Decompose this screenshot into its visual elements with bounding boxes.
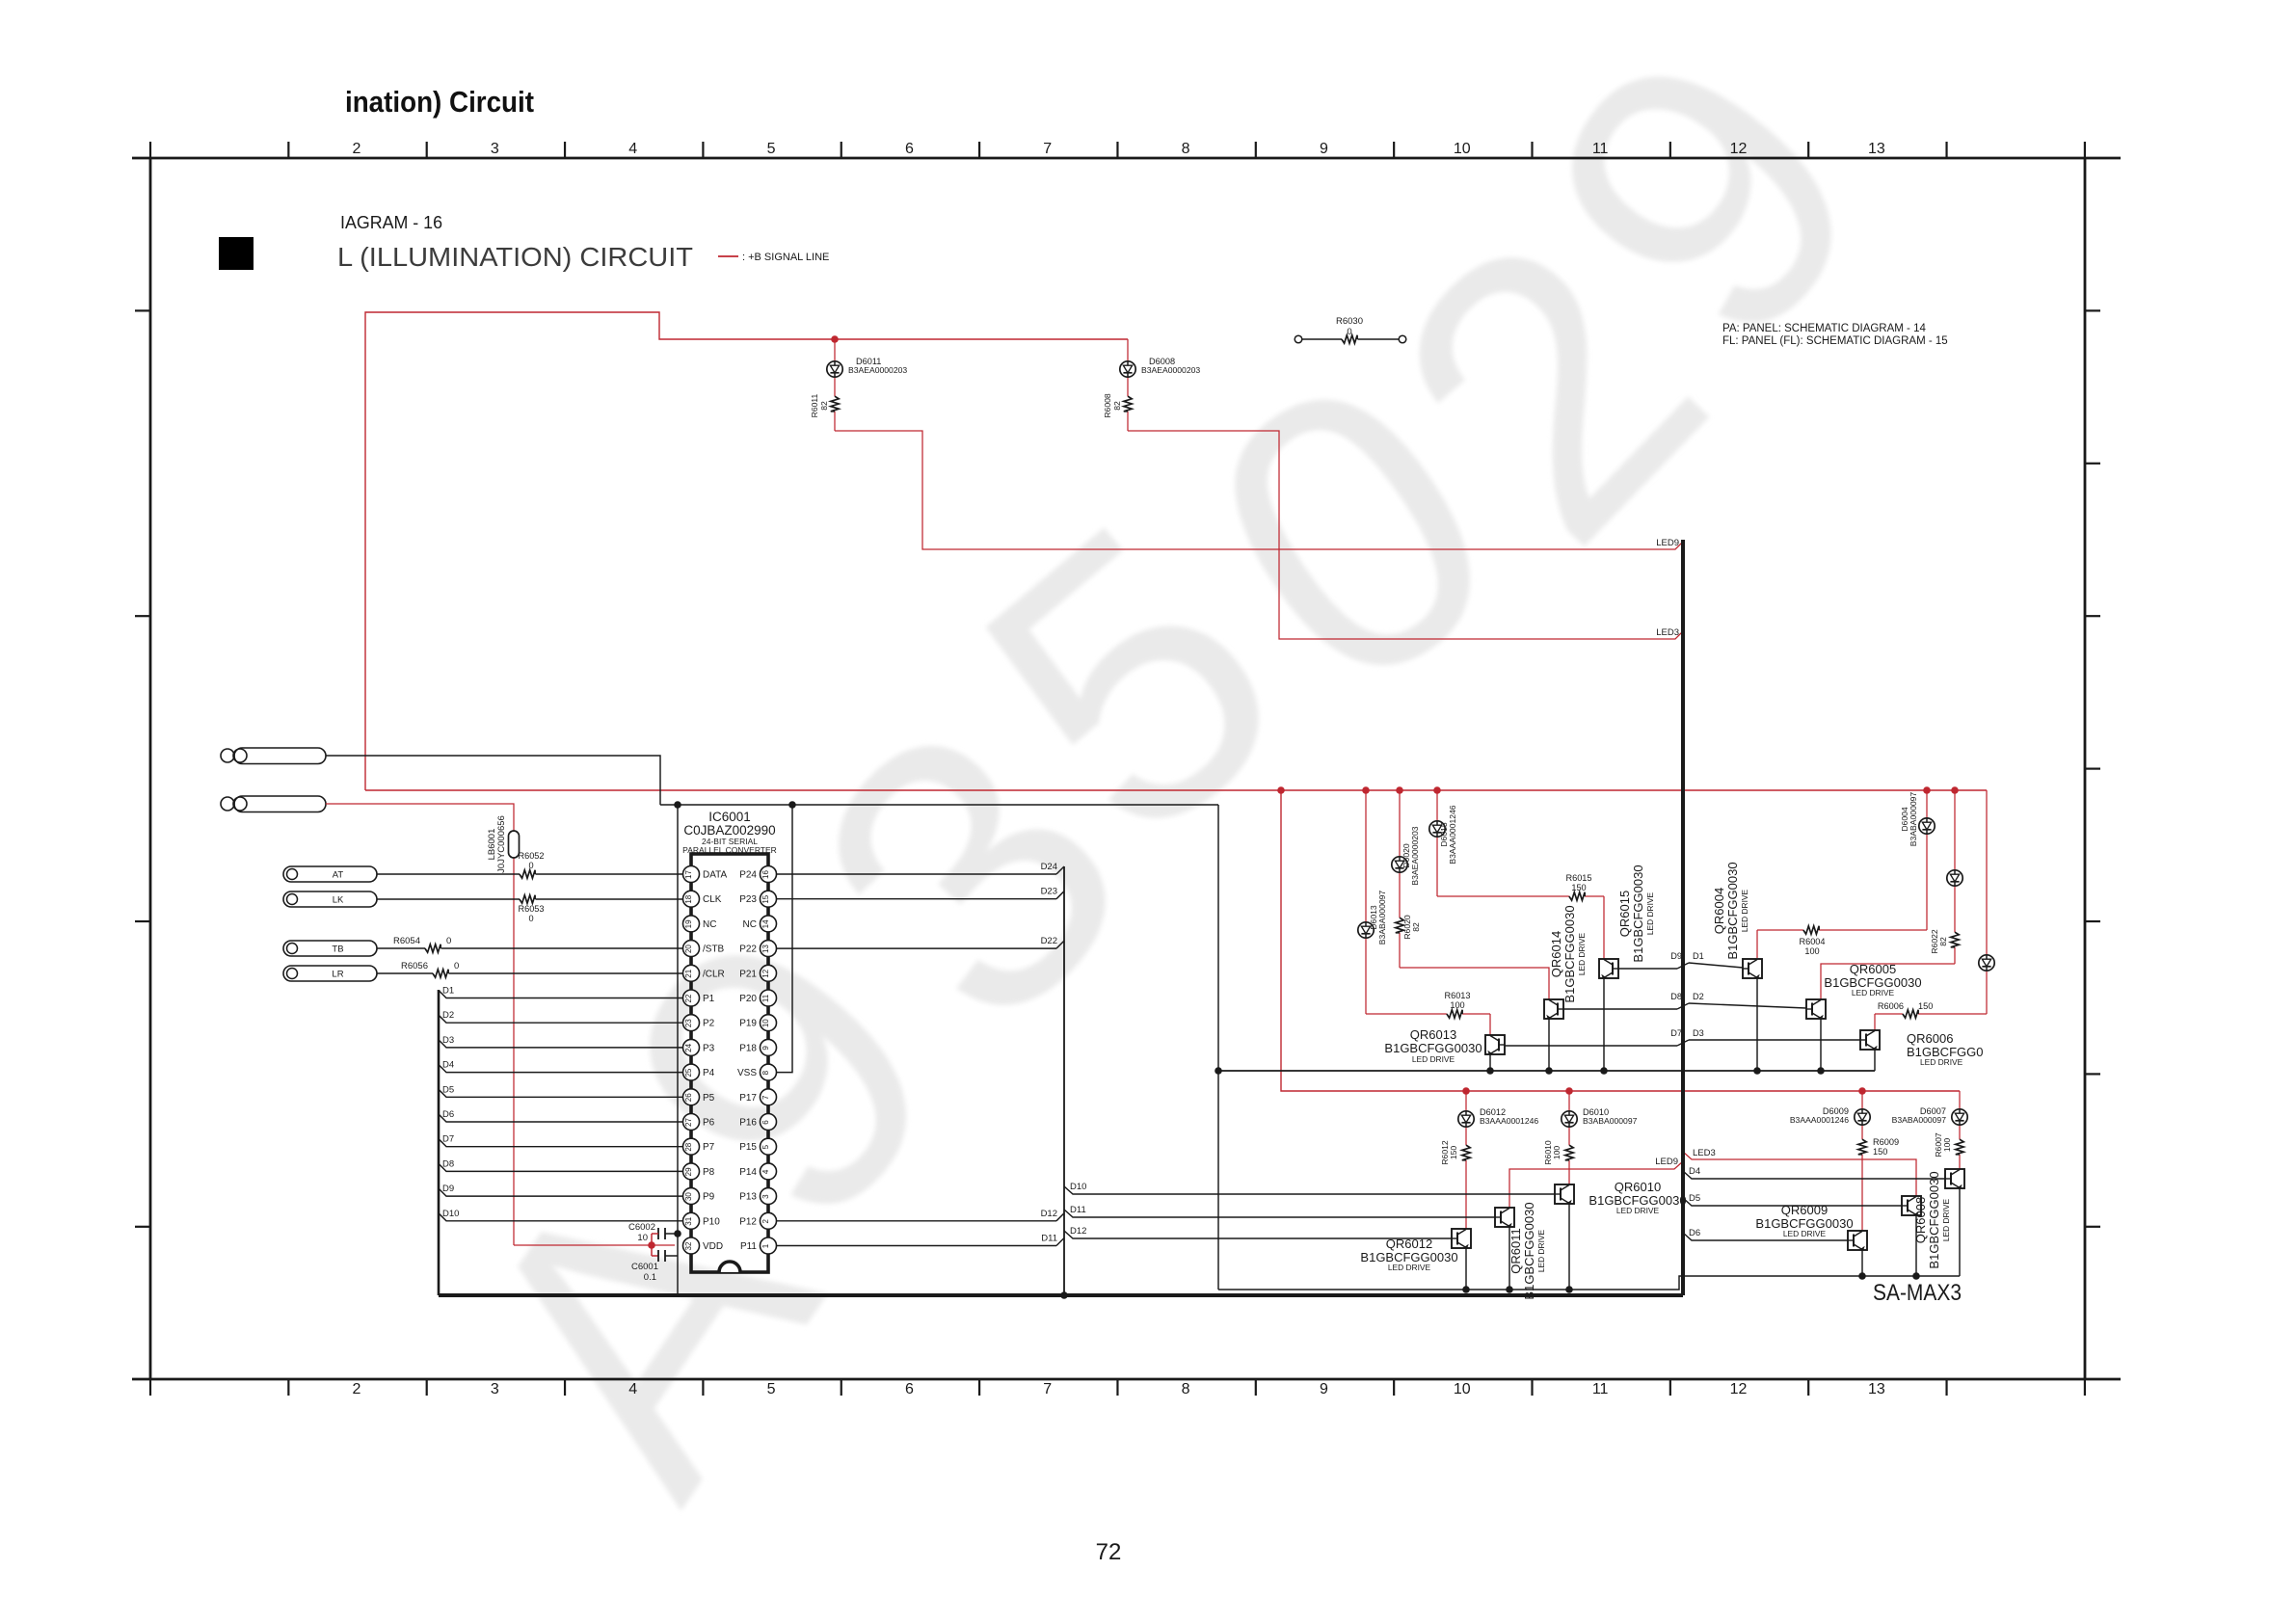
subtitle IAGRAM-16 <box>340 212 442 232</box>
svg-text:D8: D8 <box>1670 992 1682 1001</box>
svg-text:26: 26 <box>684 1093 693 1102</box>
svg-text:C6001: C6001 <box>631 1262 658 1272</box>
resistor R6009 <box>1858 1139 1866 1155</box>
node <box>1060 1291 1068 1299</box>
svg-text:B3AAA0001246: B3AAA0001246 <box>1790 1115 1849 1125</box>
svg-text:D6: D6 <box>442 1109 454 1120</box>
svg-text:LED DRIVE: LED DRIVE <box>1852 988 1895 998</box>
wire QR6012 collector <box>1462 1248 1470 1293</box>
IC IC6001 body <box>691 854 768 1272</box>
svg-text:R6052: R6052 <box>518 851 544 861</box>
svg-text:13: 13 <box>761 945 770 953</box>
transistor QR6011 <box>1495 1208 1514 1228</box>
svg-text:P4: P4 <box>703 1068 715 1078</box>
svg-text:D8: D8 <box>442 1158 454 1169</box>
LED D6012 <box>1458 1111 1474 1127</box>
svg-text:10: 10 <box>761 1019 770 1027</box>
svg-text:QR6013: QR6013 <box>1410 1027 1456 1042</box>
svg-text:21: 21 <box>684 969 693 977</box>
note <box>1722 323 1948 347</box>
svg-text:8: 8 <box>1182 141 1190 157</box>
diagram title <box>337 242 693 272</box>
wire QR6014 collector <box>1545 1019 1553 1075</box>
svg-text:P14: P14 <box>739 1167 757 1178</box>
wire D6015 branch <box>1437 790 1604 959</box>
wire D6009 branch <box>1861 1091 1863 1231</box>
label <box>1670 992 1704 1001</box>
resistor R6013 <box>1444 991 1470 1018</box>
wire D6012 branch <box>1465 1091 1467 1229</box>
label <box>1384 1027 1482 1064</box>
label LED3 <box>1693 1148 1716 1158</box>
transistor Q-unlabeled <box>1945 1169 1964 1189</box>
svg-text:12: 12 <box>1730 1381 1748 1397</box>
wires D1-D10 <box>439 986 682 1221</box>
svg-text:P2: P2 <box>703 1019 715 1029</box>
black square marker <box>219 237 254 270</box>
label <box>848 357 907 375</box>
label LED9 <box>1655 1157 1678 1167</box>
node rail R6022 <box>1951 786 1959 794</box>
svg-text:9: 9 <box>1320 1381 1328 1397</box>
svg-text:12: 12 <box>761 969 770 977</box>
svg-text:D10: D10 <box>442 1209 459 1219</box>
bus collector bottom <box>1218 1276 1960 1290</box>
resistor R6006 <box>1878 1001 1933 1018</box>
label <box>1402 826 1420 885</box>
svg-text:QR6006: QR6006 <box>1907 1031 1953 1046</box>
svg-text:18: 18 <box>684 894 693 903</box>
svg-text:150: 150 <box>1571 883 1586 892</box>
wire +B rail <box>365 789 1987 791</box>
wire D12 out <box>777 1209 1065 1221</box>
svg-text:B3AAA0001246: B3AAA0001246 <box>1480 1116 1538 1126</box>
label <box>1480 1107 1538 1126</box>
label <box>1824 962 1921 998</box>
svg-text:NC: NC <box>743 919 757 930</box>
svg-text:/STB: /STB <box>703 945 725 955</box>
svg-text:150: 150 <box>1449 1146 1458 1160</box>
bus D left vertical <box>438 990 441 1295</box>
label <box>1617 865 1655 962</box>
LED D6008 <box>1120 361 1135 377</box>
LED D6020 <box>1392 857 1407 872</box>
resistor R6052 <box>520 870 535 878</box>
label <box>682 810 777 855</box>
LED D6015 <box>1429 821 1445 837</box>
svg-text:LED9: LED9 <box>1656 538 1679 548</box>
svg-text:B3ABA000097: B3ABA000097 <box>1583 1116 1638 1126</box>
svg-text:P9: P9 <box>703 1192 715 1203</box>
wire R6006 branch <box>1875 790 1987 1030</box>
transistor QR6004 <box>1743 959 1762 979</box>
LED D6004 <box>1919 818 1935 834</box>
connector LK <box>283 891 377 907</box>
ferrite bead LB6001 <box>509 831 520 858</box>
svg-text:QR6004: QR6004 <box>1712 888 1726 934</box>
node rail D6015 <box>1433 786 1441 794</box>
svg-text:B3ABA000097: B3ABA000097 <box>1892 1115 1947 1125</box>
svg-text:0: 0 <box>446 936 451 946</box>
node <box>674 1230 681 1237</box>
svg-text:P21: P21 <box>739 969 757 979</box>
label <box>518 851 544 870</box>
svg-text:P10: P10 <box>703 1216 720 1227</box>
svg-text:2: 2 <box>353 141 361 157</box>
svg-text:2: 2 <box>761 1219 770 1224</box>
wire D11 out <box>777 1234 1065 1246</box>
svg-text:22: 22 <box>684 994 693 1002</box>
svg-text:ination) Circuit: ination) Circuit <box>345 85 534 119</box>
label <box>1141 357 1200 375</box>
capacitor C6002 <box>652 1228 678 1256</box>
svg-text:B1GBCFGG0030: B1GBCFGG0030 <box>1725 862 1740 959</box>
svg-text:R6009: R6009 <box>1873 1137 1899 1147</box>
svg-text:72: 72 <box>1096 1539 1122 1565</box>
node rail2 D6010 <box>1565 1087 1573 1095</box>
wire D6013 branch <box>1366 790 1490 1035</box>
svg-text:P5: P5 <box>703 1093 715 1104</box>
svg-text:R6004: R6004 <box>1799 937 1825 946</box>
label LED3 top <box>1656 627 1679 638</box>
resistor R6010 <box>1565 1145 1573 1160</box>
svg-text:IC6001: IC6001 <box>708 810 751 824</box>
svg-text:17: 17 <box>684 870 693 879</box>
svg-text:P18: P18 <box>739 1043 757 1053</box>
svg-text:6: 6 <box>761 1120 770 1125</box>
svg-text:D11: D11 <box>1070 1205 1086 1215</box>
svg-text:D22: D22 <box>1041 936 1057 946</box>
svg-text:20: 20 <box>684 945 693 953</box>
svg-text:LED DRIVE: LED DRIVE <box>1920 1057 1963 1067</box>
wire QR6004 collector <box>1753 978 1761 1075</box>
wire LR-CLR <box>377 972 682 974</box>
svg-text:P7: P7 <box>703 1142 715 1153</box>
svg-text:B3AEA0000203: B3AEA0000203 <box>848 365 907 375</box>
svg-text:LED9: LED9 <box>1655 1157 1678 1167</box>
transistor QR6012 <box>1452 1229 1471 1249</box>
svg-text:28: 28 <box>684 1142 693 1151</box>
svg-text:B3ABA000097: B3ABA000097 <box>1909 792 1918 847</box>
svg-text:VDD: VDD <box>703 1241 723 1252</box>
svg-text:B3AEA0000203: B3AEA0000203 <box>1141 365 1200 375</box>
svg-text:8: 8 <box>761 1070 770 1075</box>
svg-text:19: 19 <box>684 919 693 928</box>
wire R6022 branch <box>1821 790 1955 999</box>
label <box>1790 1106 1849 1125</box>
svg-text:D3: D3 <box>1693 1028 1704 1038</box>
svg-text:9: 9 <box>761 1046 770 1051</box>
resistor R6015 <box>1565 873 1591 900</box>
transistor QR6005 <box>1806 999 1826 1020</box>
svg-text:11: 11 <box>1592 1381 1609 1397</box>
page title <box>345 85 534 119</box>
wire QR6005 collector <box>1817 1019 1825 1075</box>
label <box>1670 1028 1704 1038</box>
wire D22 <box>777 936 1065 948</box>
svg-text:LED3: LED3 <box>1693 1148 1716 1158</box>
svg-text:LED3: LED3 <box>1656 627 1679 638</box>
resistor R6020 <box>1396 918 1403 933</box>
svg-text:P15: P15 <box>739 1142 757 1153</box>
svg-text:R6008: R6008 <box>1103 393 1112 418</box>
wire D6007 branch <box>1959 1091 1961 1169</box>
svg-text:D10: D10 <box>1070 1182 1086 1192</box>
svg-text:3: 3 <box>491 1381 499 1397</box>
node VDD red <box>648 1241 655 1249</box>
label <box>1549 905 1587 1002</box>
label <box>628 1222 655 1243</box>
svg-text:24: 24 <box>684 1043 693 1051</box>
label <box>1892 1106 1947 1125</box>
wire VSS loop <box>777 805 793 1073</box>
connector TB <box>283 941 377 956</box>
svg-text:23: 23 <box>684 1019 693 1027</box>
svg-text:0: 0 <box>528 861 533 870</box>
svg-text:LED DRIVE: LED DRIVE <box>1388 1263 1431 1272</box>
svg-text:D4: D4 <box>442 1060 454 1071</box>
wire VSS left drop <box>677 805 679 1295</box>
transistor QR6006 <box>1860 1030 1880 1051</box>
svg-text:29: 29 <box>684 1167 693 1176</box>
svg-text:100: 100 <box>1450 1000 1464 1010</box>
svg-text:: +B SIGNAL LINE: : +B SIGNAL LINE <box>742 252 829 263</box>
svg-text:30: 30 <box>684 1192 693 1201</box>
wire stub1 <box>326 756 660 805</box>
svg-text:D1: D1 <box>442 986 454 997</box>
svg-text:2: 2 <box>353 1381 361 1397</box>
node +B junction D6011 <box>831 335 839 343</box>
svg-text:9: 9 <box>1320 141 1328 157</box>
svg-text:P12: P12 <box>739 1216 757 1227</box>
label <box>1900 792 1918 847</box>
wire TB-STB <box>377 947 682 949</box>
wire IC top <box>660 804 1218 806</box>
svg-text:P3: P3 <box>703 1043 715 1053</box>
svg-text:15: 15 <box>761 894 770 903</box>
svg-text:7: 7 <box>1043 141 1052 157</box>
wire VDD feed <box>326 804 675 1245</box>
svg-text:LED DRIVE: LED DRIVE <box>1616 1206 1660 1215</box>
LED D6013 <box>1358 922 1374 938</box>
svg-text:D12: D12 <box>1041 1209 1057 1219</box>
wire QR6008 collector <box>1912 1215 1920 1280</box>
svg-text:13: 13 <box>1868 141 1885 157</box>
legend +B signal line <box>718 252 829 263</box>
node rail D6020 <box>1396 786 1403 794</box>
svg-text:P8: P8 <box>703 1167 715 1178</box>
svg-text:DATA: DATA <box>703 870 728 881</box>
wire LK-CLK <box>377 898 682 900</box>
svg-text:D3: D3 <box>442 1035 454 1046</box>
svg-text:100: 100 <box>1804 946 1819 956</box>
svg-text:C6002: C6002 <box>628 1222 655 1233</box>
resistor R6012 <box>1462 1145 1470 1160</box>
wire +B top loop <box>365 312 1128 790</box>
svg-text:AT: AT <box>333 870 344 881</box>
label <box>1103 393 1122 418</box>
node rail2 D6009 <box>1858 1087 1866 1095</box>
transistor QR6015 <box>1599 959 1618 979</box>
ruler ticks and numbers <box>135 141 2100 1397</box>
svg-text:L (ILLUMINATION) CIRCUIT: L (ILLUMINATION) CIRCUIT <box>337 242 693 272</box>
label <box>1440 1140 1458 1165</box>
svg-text:P11: P11 <box>740 1241 757 1252</box>
node <box>1215 1067 1222 1075</box>
svg-text:LED DRIVE: LED DRIVE <box>1536 1229 1546 1272</box>
svg-text:R6006: R6006 <box>1878 1001 1904 1011</box>
wire QR6015 collector <box>1600 978 1608 1075</box>
resistor R6008 <box>1124 396 1132 412</box>
connector AT <box>283 866 377 882</box>
svg-text:QR6009: QR6009 <box>1781 1203 1828 1217</box>
svg-text:J0JYC000656: J0JYC000656 <box>496 815 507 873</box>
page number 72 <box>1096 1539 1122 1565</box>
resistor R6011 <box>831 396 839 412</box>
frame border <box>132 158 2121 1379</box>
transistor QR6014 <box>1544 999 1563 1020</box>
svg-text:D5: D5 <box>1689 1193 1700 1204</box>
svg-text:27: 27 <box>684 1118 693 1127</box>
svg-text:P6: P6 <box>703 1118 715 1129</box>
node <box>674 801 681 809</box>
svg-text:D4: D4 <box>1689 1166 1700 1177</box>
svg-text:0: 0 <box>528 914 533 923</box>
resistor R6022 <box>1951 932 1959 947</box>
svg-text:D24: D24 <box>1041 862 1057 872</box>
label <box>1583 1107 1638 1126</box>
label <box>1934 1132 1952 1157</box>
svg-text:3: 3 <box>761 1194 770 1199</box>
svg-text:6: 6 <box>905 141 914 157</box>
svg-text:D1: D1 <box>1693 951 1704 961</box>
wire D12 to base <box>1064 1226 1452 1238</box>
resistor R6056 <box>433 970 448 977</box>
svg-text:0: 0 <box>1347 327 1351 337</box>
svg-text:NC: NC <box>703 919 716 930</box>
svg-text:B3AEA0000203: B3AEA0000203 <box>1410 826 1420 885</box>
wire D7-D3 <box>1505 1040 1860 1046</box>
wire QR6009 collector <box>1858 1250 1866 1280</box>
svg-text:QR6011: QR6011 <box>1508 1228 1523 1273</box>
bus collector mid <box>1218 1070 1875 1072</box>
svg-text:0: 0 <box>454 961 459 971</box>
node rail D6004 <box>1923 786 1931 794</box>
svg-text:CLK: CLK <box>703 894 722 905</box>
svg-text:0.1: 0.1 <box>644 1272 656 1283</box>
label <box>1913 1171 1951 1268</box>
wire QR6013 collector <box>1486 1054 1494 1075</box>
wire D6011 branch <box>835 339 1683 549</box>
svg-text:P24: P24 <box>739 870 757 881</box>
label <box>1360 1237 1457 1272</box>
wire D6 <box>1683 1228 1848 1240</box>
svg-text:LED DRIVE: LED DRIVE <box>1412 1054 1455 1064</box>
svg-text:7: 7 <box>761 1095 770 1100</box>
LED D6011 <box>827 361 842 377</box>
connector stub 2 <box>221 796 326 812</box>
svg-text:82: 82 <box>1112 401 1122 411</box>
svg-text:6: 6 <box>905 1381 914 1397</box>
bus D mid vertical <box>1063 866 1065 1295</box>
svg-text:R6030: R6030 <box>1336 316 1363 327</box>
label <box>1439 805 1457 864</box>
svg-text:QR6008: QR6008 <box>1913 1197 1928 1243</box>
svg-text:D23: D23 <box>1041 887 1057 897</box>
svg-text:100: 100 <box>1942 1138 1952 1153</box>
connector stub 1 <box>221 748 326 764</box>
wire D10 to base <box>1064 1182 1555 1194</box>
LED D-R6006 <box>1979 955 1994 971</box>
svg-text:32: 32 <box>684 1241 693 1250</box>
svg-text:P13: P13 <box>739 1192 757 1203</box>
resistor R6053 <box>520 895 535 903</box>
node rail2 feed <box>1277 786 1285 794</box>
wire D24 <box>777 862 1065 874</box>
svg-text:D6: D6 <box>1689 1228 1700 1238</box>
wire D23 <box>777 887 1065 899</box>
svg-text:C0JBAZ002990: C0JBAZ002990 <box>683 823 775 838</box>
svg-text:R6015: R6015 <box>1565 873 1591 883</box>
svg-text:5: 5 <box>767 141 776 157</box>
svg-text:P17: P17 <box>739 1093 757 1104</box>
wire right drop <box>1217 805 1219 1290</box>
resistor R6054 <box>425 945 441 952</box>
label <box>1589 1180 1686 1215</box>
svg-text:D5: D5 <box>442 1084 454 1095</box>
resistor R6007 <box>1956 1139 1963 1155</box>
svg-text:LED DRIVE: LED DRIVE <box>1645 891 1655 935</box>
label <box>1873 1137 1899 1157</box>
svg-text:5: 5 <box>761 1144 770 1149</box>
wire D4 <box>1683 1166 1945 1179</box>
label <box>487 815 507 873</box>
svg-text:R6013: R6013 <box>1444 991 1470 1000</box>
label <box>393 936 451 946</box>
svg-text:VSS: VSS <box>737 1068 757 1078</box>
svg-text:D7: D7 <box>1670 1028 1682 1038</box>
svg-text:PA: PANEL: SCHEMATIC DIAGRAM -: PA: PANEL: SCHEMATIC DIAGRAM - 14 <box>1722 323 1926 334</box>
svg-text:5: 5 <box>767 1381 776 1397</box>
svg-text:LK: LK <box>333 895 344 906</box>
svg-text:82: 82 <box>819 401 829 411</box>
svg-text:B3AAA0001246: B3AAA0001246 <box>1448 805 1457 864</box>
node rail D6013 <box>1362 786 1370 794</box>
svg-text:PARALLEL CONVERTER: PARALLEL CONVERTER <box>682 845 777 855</box>
label <box>1907 1031 1983 1067</box>
svg-text:31: 31 <box>684 1216 693 1225</box>
svg-text:QR6010: QR6010 <box>1615 1180 1661 1194</box>
svg-text:QR6014: QR6014 <box>1549 931 1563 977</box>
wire D6008 branch <box>1128 339 1683 639</box>
svg-text:10: 10 <box>637 1233 648 1243</box>
svg-text:R6011: R6011 <box>810 393 819 417</box>
svg-text:P16: P16 <box>739 1118 757 1129</box>
svg-text:P23: P23 <box>739 894 757 905</box>
svg-text:R6054: R6054 <box>393 936 420 946</box>
svg-text:D7: D7 <box>442 1134 454 1145</box>
transistor QR6013 <box>1485 1035 1505 1055</box>
wire +B rail2 feed <box>1281 790 1960 1091</box>
label <box>518 904 544 923</box>
svg-text:11: 11 <box>761 994 770 1002</box>
wire QR6006 collector <box>1874 1050 1876 1071</box>
svg-text:P22: P22 <box>739 945 757 955</box>
svg-text:IAGRAM - 16: IAGRAM - 16 <box>340 212 442 232</box>
svg-text:D2: D2 <box>1693 992 1704 1001</box>
svg-text:LED DRIVE: LED DRIVE <box>1577 932 1587 975</box>
svg-text:10: 10 <box>1454 141 1471 157</box>
